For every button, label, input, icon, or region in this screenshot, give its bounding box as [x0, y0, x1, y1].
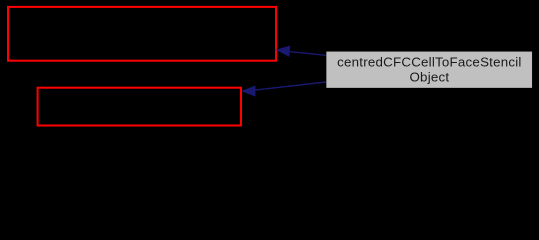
wire edge2 (inheritance arrow to box2) — [253, 82, 326, 90]
arrowhead edge2 — [242, 86, 255, 96]
svg-text:Object: Object — [409, 70, 449, 85]
node box2 (truncated class, red border, label hidden black-on-black) — [38, 88, 241, 126]
node box1 (truncated class, red border, label hidden black-on-black) — [8, 7, 276, 61]
node U3 centredCFCCellToFaceStencilObject (grey filled) — [326, 51, 533, 89]
arrowhead edge1 — [276, 46, 290, 57]
svg-text:centredCFCCellToFaceStencil: centredCFCCellToFaceStencil — [337, 54, 521, 69]
wire edge1 (inheritance arrow to box1) — [288, 51, 326, 55]
